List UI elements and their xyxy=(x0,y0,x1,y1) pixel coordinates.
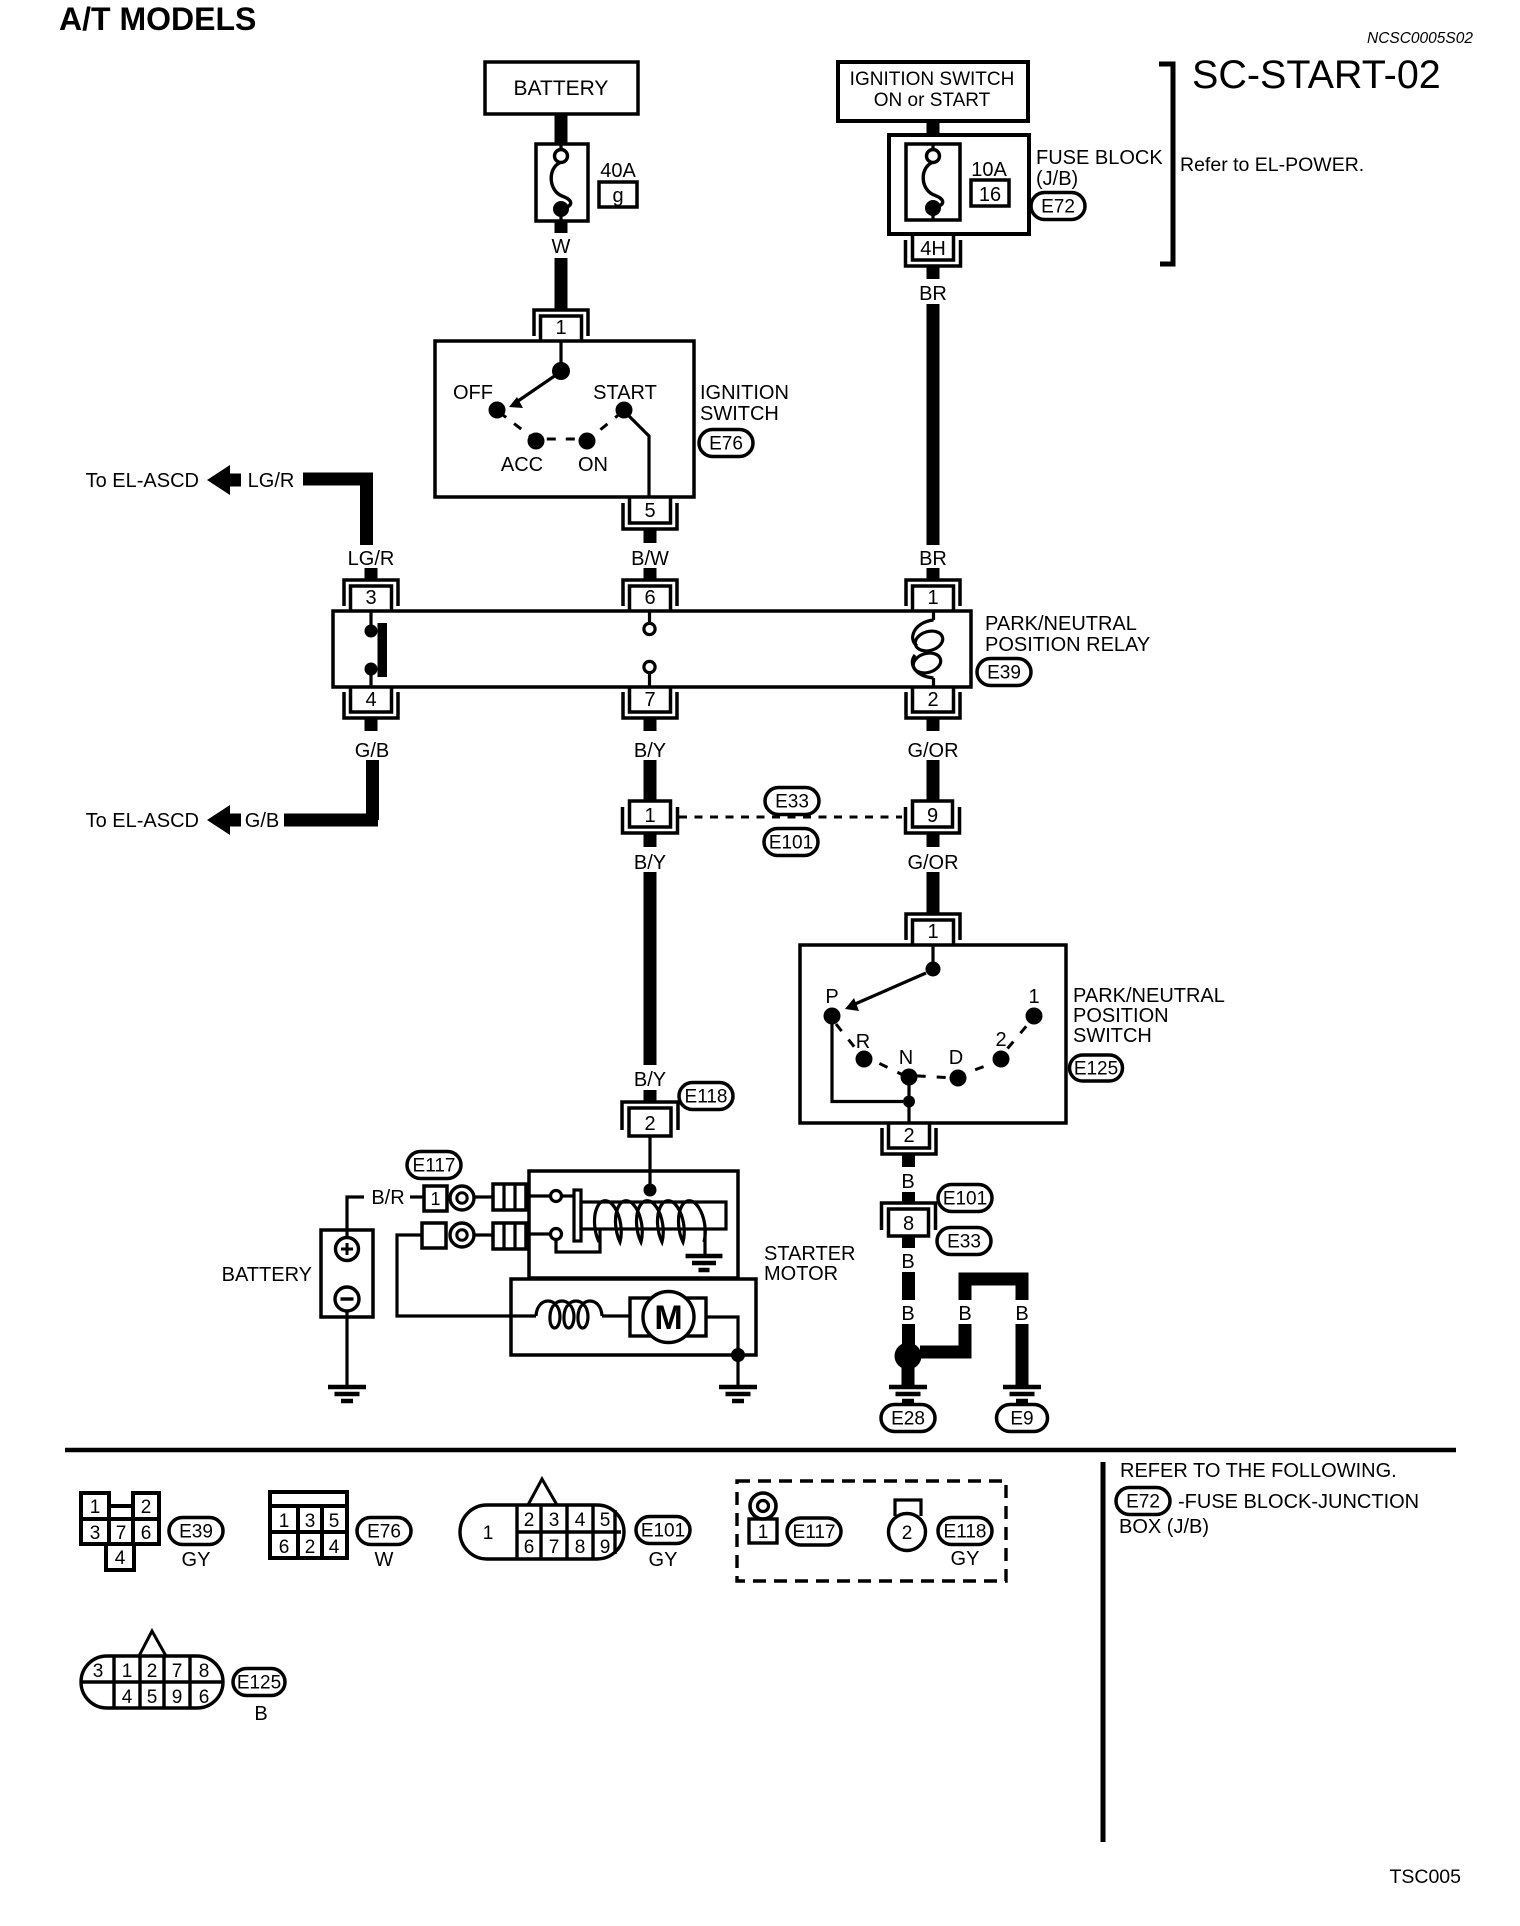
pinout oval E117 xyxy=(787,1518,841,1545)
svg-text:B: B xyxy=(901,1171,914,1193)
dashed group box E117 E118 xyxy=(737,1481,1006,1581)
field winding coil xyxy=(536,1301,602,1328)
wire BR to relay terminal 1 xyxy=(927,304,940,545)
svg-text:R: R xyxy=(856,1031,870,1053)
svg-text:ACC: ACC xyxy=(501,454,543,476)
svg-text:8: 8 xyxy=(903,1213,914,1235)
svg-text:5: 5 xyxy=(147,1687,158,1708)
arrow to EL-ASCD upper xyxy=(207,465,241,495)
svg-text:1: 1 xyxy=(122,1661,133,1682)
wire LG/R stub to relay terminal 3 xyxy=(365,568,378,580)
svg-text:To EL-ASCD: To EL-ASCD xyxy=(86,470,199,492)
connector id oval E33 upper xyxy=(765,788,819,815)
wire B run xyxy=(902,1272,915,1300)
battery box left xyxy=(321,1230,373,1317)
terminal 4H fuse block xyxy=(906,234,961,266)
wire G/OR stub below terminal 2 xyxy=(927,718,940,731)
starter solenoid box xyxy=(529,1171,738,1278)
terminal 3 relay xyxy=(344,580,398,611)
wire ring to comb lower xyxy=(474,1233,493,1236)
svg-text:1: 1 xyxy=(927,587,938,609)
contact P xyxy=(824,1008,841,1025)
wire G/B stub below terminal 4 xyxy=(365,718,378,731)
ground junction node xyxy=(895,1343,922,1370)
pinout stud terminal 2 E118 xyxy=(889,1500,926,1551)
connector id oval E33 at 8 xyxy=(937,1228,991,1255)
svg-text:10A: 10A xyxy=(971,159,1007,181)
wire junction to ground E28 xyxy=(902,1366,915,1385)
svg-text:E76: E76 xyxy=(709,434,743,455)
fusible link id box g xyxy=(599,182,637,207)
fuse id box 16 xyxy=(971,180,1009,206)
svg-text:BR: BR xyxy=(919,548,947,570)
fusible link 40A g xyxy=(536,144,588,221)
svg-text:G/B: G/B xyxy=(245,810,279,832)
svg-text:SWITCH: SWITCH xyxy=(700,403,779,425)
svg-text:2: 2 xyxy=(995,1029,1006,1051)
ground symbol solenoid xyxy=(686,1256,723,1270)
wire terminal 2 into solenoid xyxy=(648,1136,651,1185)
wire START contact to terminal 5 xyxy=(628,415,649,497)
svg-text:E125: E125 xyxy=(237,1673,281,1694)
svg-text:6: 6 xyxy=(644,587,655,609)
svg-text:6: 6 xyxy=(141,1523,152,1544)
connector id oval E76 xyxy=(699,430,753,457)
solenoid contact upper xyxy=(529,1191,574,1202)
fuse 10A 16 xyxy=(906,144,960,220)
svg-text:W: W xyxy=(375,1549,394,1571)
svg-text:2: 2 xyxy=(902,1523,913,1544)
svg-text:PARK/NEUTRAL: PARK/NEUTRAL xyxy=(1073,985,1225,1007)
ground symbol E28 xyxy=(889,1387,927,1401)
relay coil xyxy=(911,611,945,687)
svg-text:2: 2 xyxy=(147,1661,158,1682)
pinout oval E118 xyxy=(938,1518,992,1545)
svg-text:3: 3 xyxy=(305,1511,316,1532)
svg-text:ON or START: ON or START xyxy=(874,90,991,111)
wire B/Y to connector 1 xyxy=(644,760,657,801)
connector pinout oval E76 xyxy=(357,1518,411,1545)
svg-text:9: 9 xyxy=(600,1537,611,1558)
svg-text:MOTOR: MOTOR xyxy=(764,1263,838,1285)
svg-text:B: B xyxy=(1015,1303,1028,1325)
svg-text:E76: E76 xyxy=(367,1522,401,1543)
svg-text:ON: ON xyxy=(578,454,608,476)
svg-text:B/W: B/W xyxy=(631,548,669,570)
svg-text:B/Y: B/Y xyxy=(634,740,666,762)
svg-text:E118: E118 xyxy=(944,1522,987,1543)
switch junction node xyxy=(903,1096,915,1108)
ignition switch START contact xyxy=(616,402,633,419)
wire B stub below connector 8 xyxy=(902,1236,915,1248)
wire battery positive to B/R xyxy=(347,1197,364,1238)
svg-text:E28: E28 xyxy=(891,1409,925,1430)
battery supply box xyxy=(485,62,638,114)
ring terminal upper xyxy=(450,1186,474,1210)
comb terminal lower xyxy=(493,1223,526,1249)
svg-text:(J/B): (J/B) xyxy=(1036,168,1078,190)
svg-text:E125: E125 xyxy=(1074,1059,1118,1080)
wire core to solenoid ground xyxy=(703,1229,706,1254)
svg-text:4H: 4H xyxy=(920,238,946,260)
svg-text:B: B xyxy=(254,1703,267,1725)
svg-text:REFER TO THE FOLLOWING.: REFER TO THE FOLLOWING. xyxy=(1120,1460,1397,1482)
terminal 1 park/neutral switch xyxy=(906,914,960,945)
ignition switch on-start feed box xyxy=(838,62,1028,121)
switch position arc dashed xyxy=(836,1023,1029,1078)
ignition switch rotor arrow to OFF xyxy=(509,375,556,408)
terminal 4 relay xyxy=(344,687,398,718)
connector pinout oval E125 xyxy=(233,1669,285,1696)
wire B stub to connector 8 xyxy=(902,1192,915,1204)
svg-text:4: 4 xyxy=(329,1537,340,1558)
wire B/Y stub below terminal 7 xyxy=(644,718,657,731)
svg-text:FUSE BLOCK: FUSE BLOCK xyxy=(1036,147,1163,169)
bracket for EL-POWER note xyxy=(1159,64,1173,264)
wire W to ignition switch terminal 1 xyxy=(555,258,568,309)
svg-text:SWITCH: SWITCH xyxy=(1073,1025,1152,1047)
wire feed box to fuse block xyxy=(927,121,940,135)
terminal 5 ignition switch xyxy=(623,498,677,529)
svg-text:4: 4 xyxy=(115,1548,126,1569)
starter motor housing box xyxy=(511,1279,756,1355)
svg-text:1: 1 xyxy=(1028,986,1039,1008)
wire ring to comb upper xyxy=(474,1195,493,1198)
svg-text:E39: E39 xyxy=(179,1522,213,1543)
wire junction to motor ground xyxy=(736,1355,739,1385)
svg-text:IGNITION: IGNITION xyxy=(700,382,789,404)
connector pinout E76 xyxy=(270,1492,347,1558)
connector pinout E101 xyxy=(460,1479,624,1559)
connector 8 E101 xyxy=(882,1203,936,1236)
switch rotor arrow to P xyxy=(845,973,926,1011)
svg-text:7: 7 xyxy=(644,689,655,711)
wire B stub below switch xyxy=(902,1154,915,1167)
terminal 1 relay xyxy=(906,580,960,611)
svg-text:IGNITION SWITCH: IGNITION SWITCH xyxy=(850,69,1015,90)
svg-text:1: 1 xyxy=(430,1189,440,1209)
svg-text:STARTER: STARTER xyxy=(764,1243,856,1265)
svg-text:2: 2 xyxy=(141,1497,152,1518)
connector 1 E33 xyxy=(623,801,678,833)
svg-text:6: 6 xyxy=(279,1537,290,1558)
terminal 2 park/neutral switch xyxy=(882,1123,936,1154)
svg-text:E39: E39 xyxy=(987,663,1021,684)
pinout terminal box 1 E117 xyxy=(749,1519,777,1543)
svg-text:M: M xyxy=(654,1299,682,1337)
svg-text:A/T MODELS: A/T MODELS xyxy=(59,1,256,37)
ignition switch box E76 xyxy=(435,341,694,497)
svg-text:1: 1 xyxy=(90,1497,101,1518)
arrow to EL-ASCD lower xyxy=(207,805,241,835)
wire branch n-shape to E9 xyxy=(965,1279,1022,1300)
wire comb to solenoid box lower xyxy=(526,1233,530,1236)
wire motor to housing edge xyxy=(706,1317,738,1349)
park/neutral position switch box xyxy=(800,945,1066,1123)
svg-text:G/B: G/B xyxy=(355,740,389,762)
svg-text:3: 3 xyxy=(365,587,376,609)
svg-text:B: B xyxy=(901,1303,914,1325)
svg-text:START: START xyxy=(593,382,657,404)
svg-text:GY: GY xyxy=(649,1549,678,1571)
svg-text:9: 9 xyxy=(927,805,938,827)
ground symbol E9 xyxy=(1003,1387,1041,1401)
solenoid winding xyxy=(595,1201,706,1242)
wire comb to solenoid box upper xyxy=(526,1195,530,1198)
svg-text:P: P xyxy=(825,986,838,1008)
svg-text:E101: E101 xyxy=(641,1521,685,1542)
dashed connector pass-through line xyxy=(679,816,902,819)
svg-text:16: 16 xyxy=(979,184,1001,206)
ignition switch ACC contact xyxy=(528,433,545,450)
svg-text:7: 7 xyxy=(549,1537,560,1558)
ground id oval E28 xyxy=(881,1405,935,1432)
svg-text:GY: GY xyxy=(951,1548,980,1570)
relay contact armature xyxy=(365,611,388,687)
pinout ring terminal E117 xyxy=(750,1493,776,1519)
svg-text:BR: BR xyxy=(919,283,947,305)
park/neutral position relay box xyxy=(333,611,971,687)
wire battery to fusible link xyxy=(555,114,568,144)
svg-text:1: 1 xyxy=(644,805,655,827)
svg-text:7: 7 xyxy=(172,1661,183,1682)
terminal 2 E118 starter motor xyxy=(622,1102,678,1136)
wire G/B vertical run xyxy=(366,760,379,820)
connector pinout oval E101 xyxy=(636,1517,690,1544)
contact R xyxy=(856,1051,873,1068)
svg-text:OFF: OFF xyxy=(453,382,493,404)
terminal 7 relay xyxy=(623,687,677,718)
svg-text:4: 4 xyxy=(365,689,376,711)
ground id oval E9 xyxy=(997,1405,1048,1432)
svg-text:1: 1 xyxy=(555,317,566,339)
svg-text:TSC005: TSC005 xyxy=(1389,1866,1461,1888)
svg-text:2: 2 xyxy=(305,1537,316,1558)
terminal 6 relay xyxy=(623,580,677,611)
footer oval E72 xyxy=(1116,1488,1170,1515)
connector id oval E118 xyxy=(679,1083,733,1110)
svg-text:W: W xyxy=(552,236,571,258)
terminal 2 relay xyxy=(906,687,960,718)
wire N contact to junction xyxy=(907,1085,910,1101)
svg-text:D: D xyxy=(949,1047,963,1069)
svg-text:G/OR: G/OR xyxy=(907,740,958,762)
wire LG/R horizontal run xyxy=(303,473,373,486)
ignition switch position arc dashed xyxy=(499,412,622,439)
svg-text:POSITION RELAY: POSITION RELAY xyxy=(985,634,1150,656)
svg-text:G/OR: G/OR xyxy=(907,852,958,874)
wire LG/R vertical run xyxy=(360,473,373,545)
solenoid core xyxy=(581,1202,726,1229)
ignition switch OFF contact xyxy=(489,402,506,419)
wire B/R to terminal 1 E117 xyxy=(410,1195,424,1198)
solenoid winding tap node xyxy=(644,1184,657,1197)
svg-text:B: B xyxy=(901,1251,914,1273)
relay contact terminal circles column 6 xyxy=(644,611,655,687)
switch common node xyxy=(926,962,941,977)
svg-text:B: B xyxy=(958,1303,971,1325)
wire lower box to motor feed xyxy=(397,1235,536,1316)
svg-text:E117: E117 xyxy=(793,1522,836,1543)
wire coil to motor M xyxy=(602,1314,630,1317)
svg-text:E101: E101 xyxy=(943,1189,987,1210)
svg-text:5: 5 xyxy=(329,1511,340,1532)
terminal 1 E117 box xyxy=(424,1186,447,1211)
terminal 1 ignition switch xyxy=(534,310,588,341)
svg-text:3: 3 xyxy=(90,1523,101,1544)
connector id oval E72 xyxy=(1031,193,1085,220)
wire fusible link to W label xyxy=(555,221,568,233)
wire B stub to junction xyxy=(902,1324,915,1350)
comb terminal upper xyxy=(493,1184,526,1210)
solenoid plunger xyxy=(574,1190,581,1241)
svg-text:E72: E72 xyxy=(1126,1492,1160,1513)
wire 4H stub xyxy=(927,266,940,279)
ground symbol motor xyxy=(719,1387,757,1401)
wire B/W to relay terminal 6 xyxy=(644,568,657,580)
wire B/Y stub to terminal E118 xyxy=(644,1090,657,1102)
svg-text:POSITION: POSITION xyxy=(1073,1005,1169,1027)
footer divider vertical line xyxy=(1101,1462,1106,1842)
svg-text:E33: E33 xyxy=(947,1232,981,1253)
solenoid contact lower xyxy=(529,1229,562,1240)
svg-text:B/R: B/R xyxy=(371,1187,404,1209)
svg-text:E118: E118 xyxy=(685,1087,728,1108)
svg-text:4: 4 xyxy=(575,1510,586,1531)
contact D xyxy=(950,1070,967,1087)
svg-text:LG/R: LG/R xyxy=(248,470,295,492)
wire B/Y stub below connector 1 xyxy=(644,833,657,847)
svg-text:5: 5 xyxy=(644,500,655,522)
ignition switch common node xyxy=(552,362,570,380)
svg-text:2: 2 xyxy=(524,1510,535,1531)
wire G/OR stub below connector 9 xyxy=(927,833,940,847)
wire junction to terminal 2 xyxy=(907,1101,910,1123)
switch common node wire xyxy=(931,945,934,963)
ground symbol battery xyxy=(328,1387,366,1401)
svg-text:8: 8 xyxy=(575,1537,586,1558)
wire P contact to junction xyxy=(832,1024,903,1102)
svg-text:9: 9 xyxy=(172,1687,183,1708)
wire G/OR to connector 9 xyxy=(927,760,940,801)
ring terminal lower xyxy=(450,1223,474,1247)
svg-text:E33: E33 xyxy=(775,792,809,813)
svg-text:6: 6 xyxy=(199,1687,210,1708)
svg-text:1: 1 xyxy=(927,921,938,943)
wire left leg to junction xyxy=(920,1324,965,1352)
svg-text:g: g xyxy=(612,185,623,207)
svg-text:E72: E72 xyxy=(1041,197,1075,218)
svg-text:B/Y: B/Y xyxy=(634,1069,666,1091)
connector pinout E125 xyxy=(81,1631,223,1708)
svg-text:7: 7 xyxy=(116,1523,127,1544)
ignition switch ON contact xyxy=(579,433,596,450)
svg-text:-FUSE BLOCK-JUNCTION: -FUSE BLOCK-JUNCTION xyxy=(1178,1491,1419,1513)
svg-text:E101: E101 xyxy=(769,833,813,854)
svg-text:PARK/NEUTRAL: PARK/NEUTRAL xyxy=(985,613,1137,635)
connector id oval E125 xyxy=(1070,1055,1123,1081)
motor M symbol xyxy=(630,1292,706,1343)
unnumbered terminal box lower xyxy=(422,1223,446,1248)
connector id oval E117 xyxy=(407,1152,461,1179)
wire battery negative to ground xyxy=(345,1311,348,1385)
svg-text:BATTERY: BATTERY xyxy=(222,1264,312,1286)
separator line xyxy=(65,1448,1456,1453)
connector pinout oval E39 xyxy=(169,1518,223,1545)
wire G/OR to park/neutral switch xyxy=(927,872,940,914)
svg-text:BATTERY: BATTERY xyxy=(514,77,609,100)
svg-text:N: N xyxy=(899,1047,913,1069)
contact 1 xyxy=(1026,1008,1043,1025)
svg-text:1: 1 xyxy=(279,1511,290,1532)
wire lower contact to core xyxy=(556,1230,600,1252)
connector id oval E101 at 8 xyxy=(938,1185,992,1212)
svg-text:3: 3 xyxy=(549,1510,560,1531)
fuse block outer box J/B xyxy=(889,135,1029,234)
wire G/B horizontal run xyxy=(284,814,378,827)
svg-text:GY: GY xyxy=(182,1549,211,1571)
wire B/Y long run to E118 xyxy=(644,872,657,1065)
wire BR stub to relay xyxy=(927,568,940,580)
svg-text:1: 1 xyxy=(758,1522,769,1543)
svg-text:2: 2 xyxy=(644,1113,655,1135)
connector pinout E39 xyxy=(81,1493,159,1570)
svg-text:5: 5 xyxy=(600,1510,611,1531)
svg-text:To EL-ASCD: To EL-ASCD xyxy=(86,810,199,832)
svg-text:8: 8 xyxy=(199,1661,210,1682)
svg-text:1: 1 xyxy=(483,1523,494,1544)
svg-text:BOX (J/B): BOX (J/B) xyxy=(1119,1516,1209,1538)
svg-text:E117: E117 xyxy=(413,1156,456,1177)
contact N xyxy=(901,1069,918,1086)
connector 9 E33 xyxy=(906,801,960,833)
svg-text:LG/R: LG/R xyxy=(348,548,395,570)
svg-text:6: 6 xyxy=(524,1537,535,1558)
motor ground junction node xyxy=(731,1348,745,1362)
wire right leg to ground E9 xyxy=(1016,1324,1029,1385)
wire terminal 5 stub xyxy=(644,529,657,543)
connector id oval E39 xyxy=(977,659,1031,686)
svg-text:2: 2 xyxy=(903,1125,914,1147)
ignition switch common node wire xyxy=(559,341,562,366)
contact 2 xyxy=(993,1051,1010,1068)
connector id oval E101 lower xyxy=(764,829,818,856)
svg-text:40A: 40A xyxy=(600,160,636,182)
svg-text:SC-START-02: SC-START-02 xyxy=(1192,53,1441,97)
svg-text:B/Y: B/Y xyxy=(634,852,666,874)
svg-text:Refer to EL-POWER.: Refer to EL-POWER. xyxy=(1180,154,1364,176)
battery positive terminal xyxy=(336,1238,359,1261)
svg-text:2: 2 xyxy=(927,689,938,711)
battery negative terminal xyxy=(335,1287,359,1311)
svg-text:E9: E9 xyxy=(1010,1409,1033,1430)
svg-text:3: 3 xyxy=(93,1661,104,1682)
svg-text:NCSC0005S02: NCSC0005S02 xyxy=(1367,30,1473,47)
svg-text:4: 4 xyxy=(122,1687,133,1708)
